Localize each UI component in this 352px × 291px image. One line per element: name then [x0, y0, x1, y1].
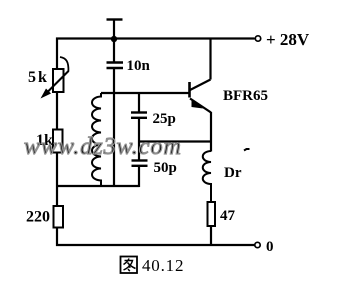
wire between 5k and 1k — [56, 92, 58, 130]
wire left branch upper — [56, 38, 58, 71]
0 terminal — [255, 239, 274, 255]
resistor 47 — [208, 202, 216, 226]
svg-text:10n: 10n — [127, 58, 151, 74]
capacitor 25p — [131, 93, 147, 142]
wire 10n down to bottom middle wire — [113, 68, 115, 186]
wire base rail — [101, 92, 189, 94]
svg-text:220: 220 — [26, 209, 50, 226]
wire emitter down — [210, 112, 212, 152]
antenna stub terminal — [107, 20, 123, 40]
wire 220 to bottom rail — [56, 228, 58, 247]
svg-text:BFR65: BFR65 — [223, 88, 268, 104]
svg-text:25p: 25p — [153, 111, 176, 127]
stray scan mark — [244, 149, 250, 151]
wire bottom middle (junction to 50p branch) — [56, 185, 140, 187]
svg-text:50p: 50p — [154, 160, 177, 176]
wire 47 to bottom rail — [210, 226, 212, 246]
resistor 220 — [54, 206, 64, 228]
caption character 图 — [121, 257, 138, 274]
resistor 1k — [53, 130, 63, 153]
svg-text:5k: 5k — [28, 69, 49, 86]
potentiometer 5k — [41, 57, 69, 99]
wire bottom rail — [56, 244, 255, 246]
inductor Dr — [203, 151, 211, 203]
svg-text:www.dz3w.com: www.dz3w.com — [24, 134, 182, 160]
svg-text:Dr: Dr — [224, 165, 242, 181]
+28V terminal — [255, 30, 310, 49]
wire middle (caps junction to emitter) — [139, 140, 211, 142]
svg-text:+ 28V: + 28V — [266, 30, 310, 49]
wire between 1k and junction — [56, 153, 58, 208]
svg-text:47: 47 — [220, 208, 236, 224]
svg-text:40.12: 40.12 — [142, 256, 184, 275]
wire top supply rail — [56, 37, 255, 39]
capacitor 50p — [132, 142, 148, 188]
capacitor 10n — [107, 39, 124, 68]
svg-text:0: 0 — [266, 239, 274, 255]
transistor BFR65 — [190, 80, 212, 113]
inductor tank coil — [92, 93, 101, 186]
wire collector to rail — [209, 38, 211, 80]
node junction dot on rail — [111, 36, 117, 42]
